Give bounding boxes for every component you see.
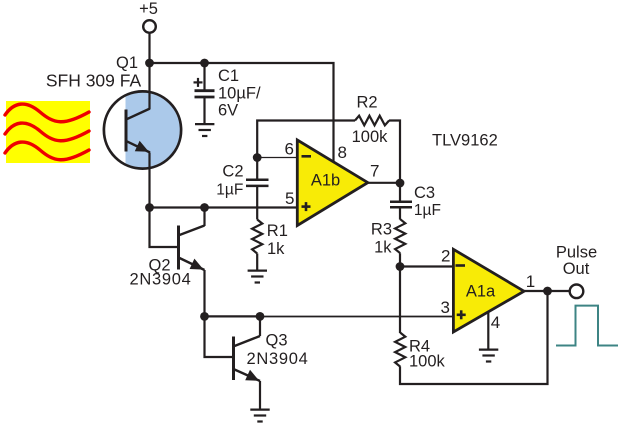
svg-text:Pulse: Pulse	[556, 244, 597, 262]
svg-text:C2: C2	[222, 163, 243, 181]
svg-text:6: 6	[285, 140, 294, 159]
svg-text:3: 3	[441, 298, 450, 317]
svg-text:4: 4	[491, 313, 500, 332]
svg-text:Q1: Q1	[116, 54, 138, 72]
svg-text:8: 8	[338, 143, 347, 162]
svg-text:2N3904: 2N3904	[247, 350, 309, 368]
svg-text:Out: Out	[563, 260, 590, 278]
svg-text:+5: +5	[139, 0, 158, 18]
svg-text:R2: R2	[356, 94, 377, 112]
svg-text:C1: C1	[218, 67, 239, 85]
svg-text:6V: 6V	[218, 102, 238, 120]
svg-text:100k: 100k	[409, 353, 446, 371]
svg-text:1: 1	[526, 272, 535, 291]
svg-text:A1b: A1b	[311, 172, 340, 190]
svg-text:1µF: 1µF	[216, 182, 243, 199]
svg-text:7: 7	[370, 162, 379, 181]
svg-text:1k: 1k	[267, 240, 285, 258]
svg-text:R1: R1	[267, 222, 288, 240]
svg-text:TLV9162: TLV9162	[432, 132, 498, 150]
svg-text:R3: R3	[371, 220, 392, 238]
svg-text:C3: C3	[414, 184, 435, 202]
svg-text:1k: 1k	[374, 238, 392, 256]
svg-text:1µF: 1µF	[414, 202, 441, 219]
svg-text:2N3904: 2N3904	[130, 271, 192, 289]
svg-text:100k: 100k	[352, 128, 389, 146]
svg-text:5: 5	[285, 189, 294, 208]
svg-text:Q3: Q3	[265, 332, 287, 350]
svg-text:SFH 309 FA: SFH 309 FA	[46, 71, 142, 91]
svg-text:2: 2	[441, 247, 450, 266]
svg-text:10µF/: 10µF/	[218, 85, 261, 103]
svg-text:A1a: A1a	[466, 283, 496, 301]
